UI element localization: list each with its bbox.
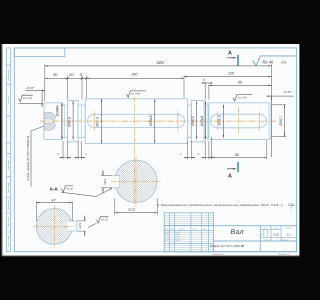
svg-text:120: 120: [228, 72, 235, 76]
svg-text:А: А: [228, 51, 232, 57]
center hole cutaway hatched region: [44, 112, 56, 130]
svg-text:1 Неуказанные предельные откло: 1 Неуказанные предельные отклонения разм…: [157, 203, 284, 207]
svg-text:57,5: 57,5: [128, 208, 135, 212]
title block outer: [164, 226, 296, 252]
svg-text:(√): (√): [282, 60, 287, 64]
left strip dividers: [7, 64, 11, 66]
keyway 2 arc centerlines: [216, 111, 218, 131]
groove 4: [205, 105, 209, 138]
svg-text:14Р9: 14Р9: [104, 178, 107, 185]
dim 6: [82, 77, 86, 79]
svg-text:Ø45к6: Ø45к6: [149, 115, 153, 127]
dim O38k6: [61, 103, 63, 140]
section arrow A bottom: [227, 168, 235, 170]
section A-A circle hatched: [36, 208, 72, 244]
sheet left edge shadow: [1, 44, 2, 256]
drawing frame border: [14, 48, 296, 252]
chamfer line right end: [268, 103, 270, 140]
dim 90 extension line: [208, 84, 210, 99]
section A-A dim 47: [35, 201, 37, 221]
dim row2 extension lines: [67, 76, 69, 100]
keyway 2 vertical centerline: [238, 107, 240, 135]
section arrow A top: [227, 57, 235, 59]
revision table thin rows: [164, 214, 213, 216]
svg-text:Ø45к6: Ø45к6: [200, 116, 204, 128]
dim O45,5 right: [196, 101, 198, 139]
shaft step 2 (O45,5): [68, 101, 79, 142]
svg-text:А-А: А-А: [50, 186, 59, 191]
svg-text:Rz 40: Rz 40: [263, 59, 274, 64]
shaft centerline: [40, 120, 276, 122]
svg-text:Сталь 45 ГОСТ 1050-88: Сталь 45 ГОСТ 1050-88: [210, 244, 244, 248]
white drawing sheet: [2, 44, 299, 256]
section cut stroke A bottom: [237, 162, 239, 173]
roughness flag Rz25 right: [88, 223, 97, 227]
small groove dims below: [62, 141, 64, 159]
svg-text:Ø57,5: Ø57,5: [96, 117, 100, 128]
general roughness mark Rz40 top right: [253, 56, 296, 66]
section A-A centerlines: [33, 225, 75, 227]
svg-text:А: А: [228, 173, 232, 179]
dim O45,7 end extension lines: [272, 104, 286, 106]
svg-text:320: 320: [156, 60, 164, 65]
roughness flag Rz0,63 step1 on shelf: [19, 101, 21, 103]
left margin column strip: [7, 48, 11, 252]
keyway 1 vertical centerline: [133, 97, 135, 207]
dim O45,5 mid: [101, 99, 103, 144]
revision table verticals: [168, 213, 170, 226]
removed section keyway notch: [113, 175, 120, 188]
svg-text:Листов 1: Листов 1: [282, 238, 289, 241]
svg-text:Ø45,7: Ø45,7: [279, 115, 283, 127]
svg-text:Копировал: Копировал: [213, 253, 225, 256]
section cut stroke A top: [237, 55, 239, 66]
svg-text:Ø41,5: Ø41,5: [218, 115, 222, 126]
removed section keyway depth dim: [101, 175, 112, 177]
svg-text:Rz 0,63: Rz 0,63: [23, 97, 32, 100]
svg-text:1:1: 1:1: [287, 232, 291, 236]
keyway slot on step 3: [88, 114, 185, 127]
roughness flag Rz0,63 step3: [127, 96, 129, 98]
section A-A keyway tab: [67, 221, 77, 232]
dim 140: [86, 77, 184, 79]
svg-text:2×45°: 2×45°: [26, 86, 36, 90]
svg-text:Ø38k6: Ø38k6: [56, 106, 60, 118]
svg-text:Масса: Масса: [274, 227, 279, 230]
dim O45k6 mid: [154, 99, 156, 144]
dim 320: [45, 65, 272, 67]
shaft step 4 (O45,5): [191, 101, 204, 142]
svg-text:Взам. инв.№: Взам. инв.№: [7, 200, 10, 210]
keyway 1 arc centerlines: [93, 111, 95, 132]
svg-text:80: 80: [235, 153, 239, 157]
svg-text:14Р9: 14Р9: [79, 222, 82, 229]
svg-text:6,18: 6,18: [273, 232, 279, 236]
dim 120: [184, 76, 272, 78]
groove 3: [188, 105, 192, 138]
svg-text:Инв. № подл.: Инв. № подл.: [7, 235, 10, 246]
shaft step 1 (O38k6): [44, 103, 62, 140]
roughness flag Rz0,63 step5: [233, 100, 235, 102]
shaft step 3 (O48) - main: [85, 99, 187, 144]
svg-text:Инв. № дубл.: Инв. № дубл.: [7, 181, 10, 192]
dim O45,5 left: [72, 101, 74, 140]
removed section dim 57,5: [114, 199, 116, 216]
top-left designation box (grafa 26): [14, 48, 65, 57]
section A-A keyway width dim: [77, 220, 86, 222]
svg-text:Справ. №: Справ. №: [7, 96, 10, 104]
groove 2: [78, 105, 85, 138]
svg-text:Rz 25: Rz 25: [101, 219, 108, 222]
title block right horizontals: [260, 236, 296, 238]
svg-text:IT14: IT14: [289, 203, 294, 206]
dim O45,7 end: [284, 105, 286, 137]
roughness flag Rz25 left with leader: [62, 189, 111, 197]
svg-text:Вал: Вал: [231, 229, 244, 236]
dim O45k6 at groove4: [205, 101, 207, 140]
shaft step 5 (O45k6) with chamfered end: [208, 103, 271, 140]
groove 1: [62, 105, 68, 138]
svg-text:Rz 25: Rz 25: [66, 188, 73, 191]
title block left grid horizontals: [164, 229, 213, 231]
svg-text:Подп. и дата: Подп. и дата: [7, 160, 10, 170]
svg-text:Подп. и дата: Подп. и дата: [7, 217, 10, 227]
title block lit cells: [263, 229, 265, 237]
title block left grid verticals: [168, 226, 170, 252]
removed section circle hatched: [115, 160, 157, 202]
svg-text:Перв. примен.: Перв. примен.: [7, 69, 10, 81]
svg-text:2 отв. центр. В1 ГОСТ 14034-74: 2 отв. центр. В1 ГОСТ 14034-74: [26, 135, 30, 181]
center hole white profile: [44, 119, 55, 123]
keyway slot on step 5: [211, 114, 267, 128]
sheet bottom edge shadow: [2, 256, 299, 257]
dim 20: [68, 77, 82, 79]
svg-text:Лист: Лист: [265, 238, 269, 241]
center hole centerline: [42, 120, 58, 122]
dim 3 groove4: [204, 82, 206, 100]
dim 90: [209, 85, 272, 87]
svg-text:Rz 0,63: Rz 0,63: [131, 93, 140, 96]
svg-text:20: 20: [68, 73, 74, 77]
overall dim 320 extension lines: [44, 64, 46, 101]
svg-text:Ø45,5: Ø45,5: [191, 116, 195, 127]
removed section centerlines: [111, 180, 162, 182]
svg-text:140: 140: [131, 73, 138, 77]
center hole leader line: [31, 126, 44, 187]
svg-text:Масштаб: Масштаб: [285, 227, 292, 230]
svg-text:Лит.: Лит.: [264, 227, 268, 230]
svg-text:Rz 0,63: Rz 0,63: [238, 96, 247, 99]
revision reserve table above title block: [164, 213, 213, 226]
dim 80 below keyway 2: [210, 137, 212, 159]
svg-text:2×45°: 2×45°: [283, 90, 293, 94]
title block name box divider: [213, 226, 215, 252]
svg-text:Формат А3: Формат А3: [278, 253, 290, 256]
dim 30: [45, 77, 68, 79]
dim O41,5 keyway: [222, 105, 224, 138]
svg-text:Ø45,5: Ø45,5: [67, 117, 71, 128]
right end extension line: [270, 96, 272, 157]
title block right part verticals: [259, 226, 261, 252]
